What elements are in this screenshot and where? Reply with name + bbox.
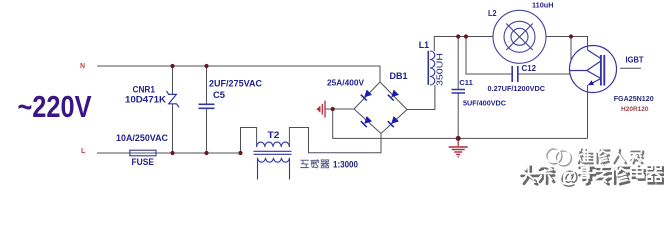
diode D4 bottom-right xyxy=(388,116,399,127)
wire C12 right riser to rail xyxy=(570,37,572,61)
capacitor C12 xyxy=(466,37,570,75)
diode D2 top-right xyxy=(388,89,399,100)
svg-text:25A/400V: 25A/400V xyxy=(327,79,365,88)
fuse FUSE xyxy=(130,150,156,156)
svg-text:FGA25N120: FGA25N120 xyxy=(614,94,654,103)
svg-text:350UH: 350UH xyxy=(435,53,445,86)
svg-text:@: @ xyxy=(558,166,577,187)
inductor L1 xyxy=(427,51,429,85)
T2 primary winding xyxy=(257,142,290,147)
svg-text:L1: L1 xyxy=(419,40,429,50)
watermark 维修人家 xyxy=(579,150,593,164)
watermark 哥专修电器 xyxy=(580,168,595,184)
bridge DB1 diamond xyxy=(354,82,407,134)
svg-text:L: L xyxy=(81,148,86,155)
svg-text:2UF/275VAC: 2UF/275VAC xyxy=(209,78,262,88)
wire L rail xyxy=(97,152,241,154)
svg-text:0.27UF/1200VDC: 0.27UF/1200VDC xyxy=(488,84,546,93)
svg-text:IGBT: IGBT xyxy=(626,55,644,64)
chassis hot-ground xyxy=(325,108,355,110)
wire N rail xyxy=(97,66,380,82)
svg-text:10A/250VAC: 10A/250VAC xyxy=(116,133,168,143)
T2 secondary winding xyxy=(258,158,290,162)
svg-text:DB1: DB1 xyxy=(390,71,409,82)
wire L1 top to rail / top rail to L2 xyxy=(434,37,493,52)
diode D3 bottom-left xyxy=(361,116,372,127)
svg-text:FUSE: FUSE xyxy=(132,157,155,167)
T2 core xyxy=(254,151,292,154)
svg-text:L2: L2 xyxy=(488,9,497,18)
capacitor C5 xyxy=(206,66,208,153)
svg-text:H20R120: H20R120 xyxy=(621,106,649,113)
svg-text:CNR1: CNR1 xyxy=(133,84,156,94)
IGBT label stub xyxy=(620,67,641,69)
svg-text:C5: C5 xyxy=(213,90,225,100)
wire T2 primary right to bridge bottom corner xyxy=(289,128,381,153)
svg-text:5UF/400VDC: 5UF/400VDC xyxy=(463,99,507,108)
wire bridge right corner to L1 xyxy=(407,85,435,110)
transformer T2 xyxy=(254,142,292,179)
svg-text:1:3000: 1:3000 xyxy=(333,160,358,171)
watermark 头条 xyxy=(522,167,538,185)
wire top rail L2 to IGBT collector xyxy=(547,37,588,51)
wire L rail up-over to T2 primary left xyxy=(241,128,257,154)
varistor CNR1 xyxy=(172,66,174,153)
svg-text:C11: C11 xyxy=(459,78,473,87)
watermark logo circles xyxy=(547,149,572,166)
svg-text:~220V: ~220V xyxy=(18,89,92,124)
svg-text:110uH: 110uH xyxy=(532,0,554,9)
capacitor C11 xyxy=(457,37,459,139)
svg-text:T2: T2 xyxy=(268,130,280,141)
label 互感器 1:3000 (drawn glyphs) xyxy=(301,160,309,167)
inductor L2 pancake coil xyxy=(493,10,546,63)
svg-text:10D471K: 10D471K xyxy=(125,95,167,105)
IGBT Q1 xyxy=(570,46,617,93)
earth ground xyxy=(457,138,459,146)
wire bridge left corner to DC- rail xyxy=(333,109,588,138)
T2 secondary leads xyxy=(258,158,290,180)
wire IGBT emitter to DC- rail xyxy=(587,85,589,138)
svg-text:N: N xyxy=(80,63,85,70)
svg-text:C12: C12 xyxy=(522,64,537,73)
diode D1 top-left xyxy=(361,89,372,100)
